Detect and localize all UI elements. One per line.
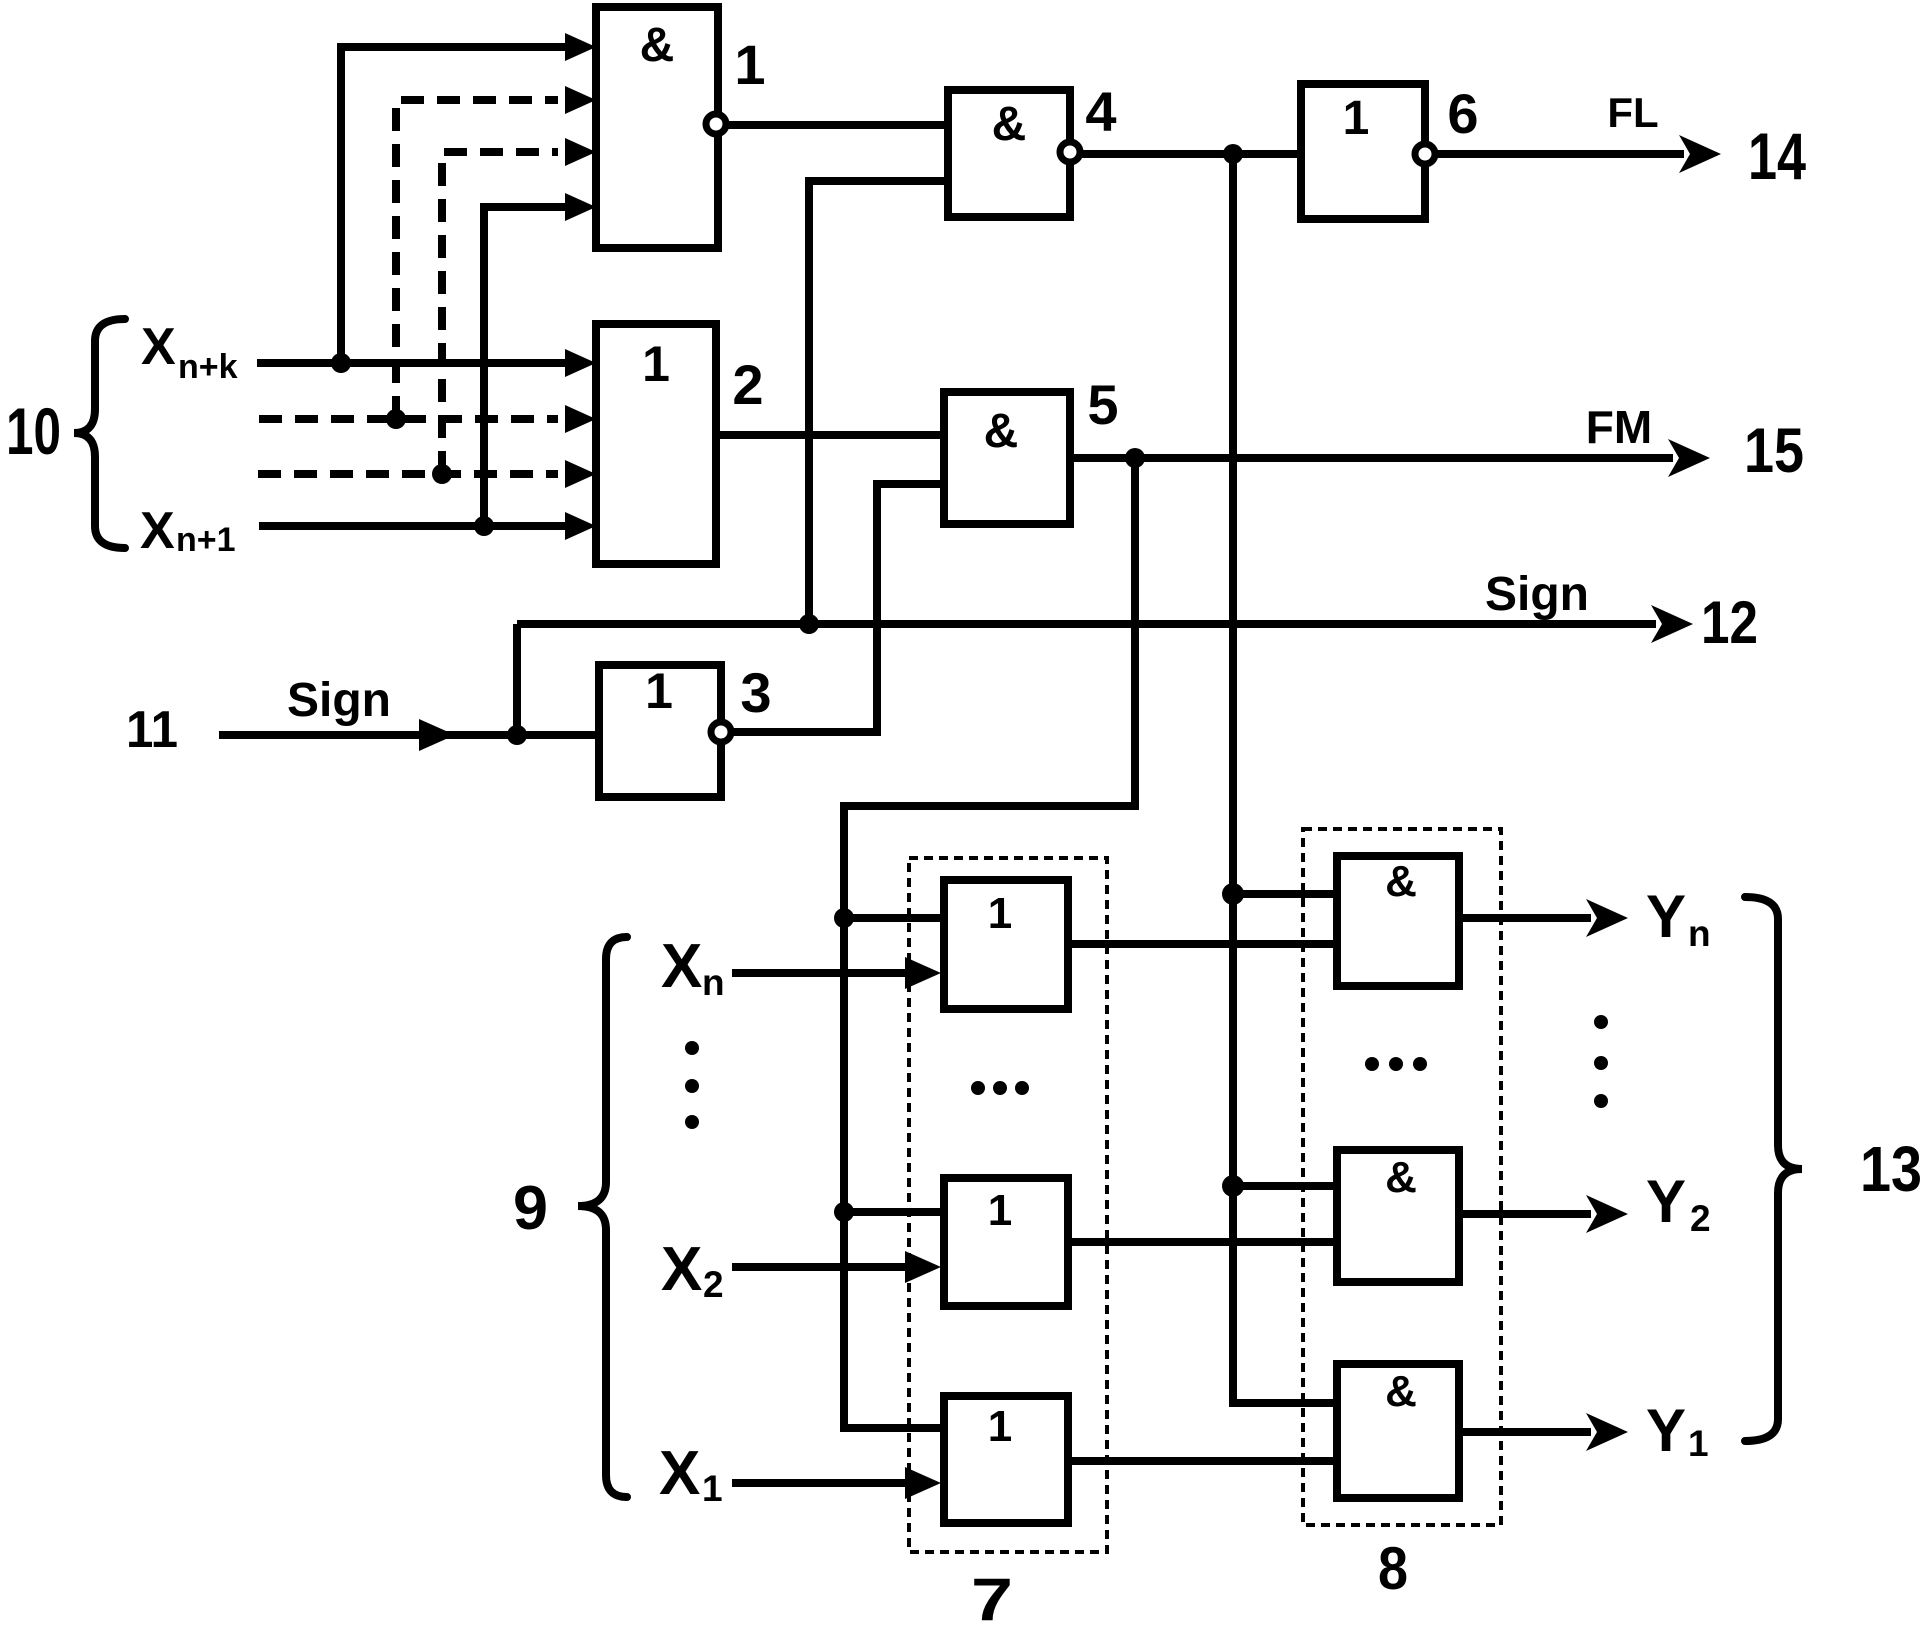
junction Xn+1 branch [474,516,494,536]
wire rail tap to AND n input 1 [1233,890,1337,898]
AND gate 4 [948,90,1070,217]
svg-text:&: & [640,19,675,72]
svg-text:13: 13 [1860,1133,1922,1205]
wire gate 1 output to gate 4 input 1 [727,121,948,129]
wire Y2 output [1459,1195,1628,1233]
svg-text:7: 7 [971,1566,1013,1627]
OR gate 2 [596,324,716,564]
wire gate 2 output to gate 5 input 1 [716,431,944,439]
svg-text:2: 2 [1690,1198,1711,1239]
svg-text:2: 2 [732,353,763,416]
svg-text:n+k: n+k [178,348,238,386]
wire dashed branch a up to gate 1 input 2 [396,86,596,419]
svg-text:9: 9 [513,1174,548,1243]
junction Sign tap [799,614,819,634]
AND gate 5 [944,392,1070,524]
output bubble gate 1 [706,114,726,134]
wire gate 3 output to gate 5 input 2 [732,484,944,732]
wire dashed input a to gate 2 input 2 [259,405,596,433]
OR gate n (block 7 top) [944,880,1068,1009]
svg-text:n+1: n+1 [176,521,236,559]
wire branch Xn+1 up to gate 1 input 4 [484,193,596,526]
output bubble gate 3 [711,722,731,742]
wire FM output 15 [1070,439,1710,477]
junction dashed branch b [432,464,452,484]
svg-text:10: 10 [6,394,61,468]
wire Sign tap up to gate 4 input 2 [809,181,948,624]
svg-text:1: 1 [1343,92,1370,145]
wire Xn to OR n input 2 [732,957,941,989]
wire dashed branch b up to gate 1 input 3 [442,138,596,474]
svg-text:Y: Y [1646,1168,1686,1235]
brace 9 (input group X1..Xn) [578,937,627,1497]
wire X1 to OR 1 input 2 [732,1467,941,1499]
wire FL output 14 [1436,135,1721,173]
svg-text:X: X [140,502,175,560]
brace 10 (input group Xn+1..Xn+k) [74,319,125,548]
svg-text:X: X [659,1439,700,1508]
svg-text:1: 1 [642,336,670,392]
ellipsis dots block 7 [971,1081,1029,1095]
svg-text:1: 1 [645,663,673,719]
svg-text:FM: FM [1586,401,1652,453]
svg-text:15: 15 [1744,416,1804,486]
svg-text:&: & [984,405,1019,458]
wire Xn+k to gate 2 input 1 [257,349,596,377]
wire rail from gate 5 output down to block 7 [844,458,1135,1428]
vertical ellipsis inputs [685,1041,699,1129]
svg-text:4: 4 [1085,80,1116,143]
svg-text:11: 11 [126,701,178,759]
junction dashed branch a [386,409,406,429]
svg-text:n: n [1688,913,1711,954]
junction rail to AND 2 input [1222,1175,1244,1197]
ellipsis dots block 8 [1365,1057,1427,1071]
svg-text:1: 1 [1688,1423,1709,1464]
wire branch Xn+k up to gate 1 input 1 [341,33,596,363]
brace 13 (output group Y1..Yn) [1745,897,1802,1441]
inverter gate 3 [599,663,721,797]
wire Sign rail to output 12 [517,605,1693,643]
junction Sign branch [507,725,527,745]
junction rail to OR n input [834,908,854,928]
wire OR 2 output to AND 2 input 2 [1068,1238,1337,1246]
svg-text:1: 1 [988,1402,1012,1451]
svg-text:&: & [1385,1367,1417,1416]
wire gate 4 output to gate 6 input [1081,150,1301,158]
svg-text:1: 1 [734,33,765,96]
svg-text:X: X [141,318,176,376]
svg-text:12: 12 [1701,589,1758,656]
wire OR 1 output to AND 1 input 2 [1068,1457,1337,1465]
junction rail to OR 2 input [834,1202,854,1222]
wire dashed input b to gate 2 input 3 [258,460,596,488]
output bubble gate 4 [1060,142,1080,162]
svg-text:&: & [1385,857,1417,906]
svg-text:X: X [661,932,702,1001]
output bubble gate 6 [1415,144,1435,164]
svg-text:1: 1 [988,1186,1012,1235]
svg-text:Y: Y [1646,883,1686,950]
junction gate 4 output branch [1223,144,1243,164]
svg-text:&: & [992,98,1027,151]
svg-text:1: 1 [988,889,1012,938]
inverter gate 6 [1301,84,1425,219]
svg-text:X: X [661,1235,702,1304]
svg-text:5: 5 [1087,373,1118,436]
OR gate 2 (block 7 middle) [944,1178,1068,1306]
vertical ellipsis outputs [1594,1015,1608,1108]
wire Y1 output [1459,1413,1628,1451]
OR gate 1 (block 7 bottom) [944,1396,1068,1523]
AND gate 1 [596,7,718,248]
svg-text:FL: FL [1607,89,1658,136]
svg-text:14: 14 [1748,119,1806,193]
wire rail tap to OR 2 input 1 [844,1208,944,1216]
svg-text:Y: Y [1646,1397,1686,1464]
junction rail to AND n input [1222,883,1244,905]
svg-text:2: 2 [703,1264,724,1305]
wire X2 to OR 2 input 2 [732,1251,941,1283]
wire Xn+1 to gate 2 input 4 [259,512,596,540]
svg-text:n: n [702,962,725,1003]
svg-text:3: 3 [740,661,771,724]
svg-text:8: 8 [1378,1535,1408,1602]
wire rail from gate 4 output down to block 8 [1233,154,1337,1403]
AND gate n (block 8 top) [1337,856,1459,986]
block 7 dashed outline [909,858,1107,1552]
AND gate 1 (block 8 bottom) [1337,1364,1459,1498]
block 8 dashed outline [1303,829,1501,1525]
svg-text:6: 6 [1447,82,1478,145]
svg-text:Sign: Sign [1485,568,1589,621]
wire OR n output to AND n input 2 [1068,940,1337,948]
AND gate 2 (block 8 middle) [1337,1150,1459,1282]
junction Xn+k branch [331,353,351,373]
wire rail tap to OR n input 1 [844,914,944,922]
junction gate 5 output branch [1125,448,1145,468]
wire Sign input to gate 3 [219,719,599,751]
wire rail tap to AND 2 input 1 [1233,1182,1337,1190]
svg-text:1: 1 [702,1468,723,1509]
svg-text:&: & [1385,1153,1417,1202]
wire Yn output [1459,899,1628,937]
wire Sign branch up to Sign rail [513,624,521,735]
svg-text:Sign: Sign [287,674,391,727]
